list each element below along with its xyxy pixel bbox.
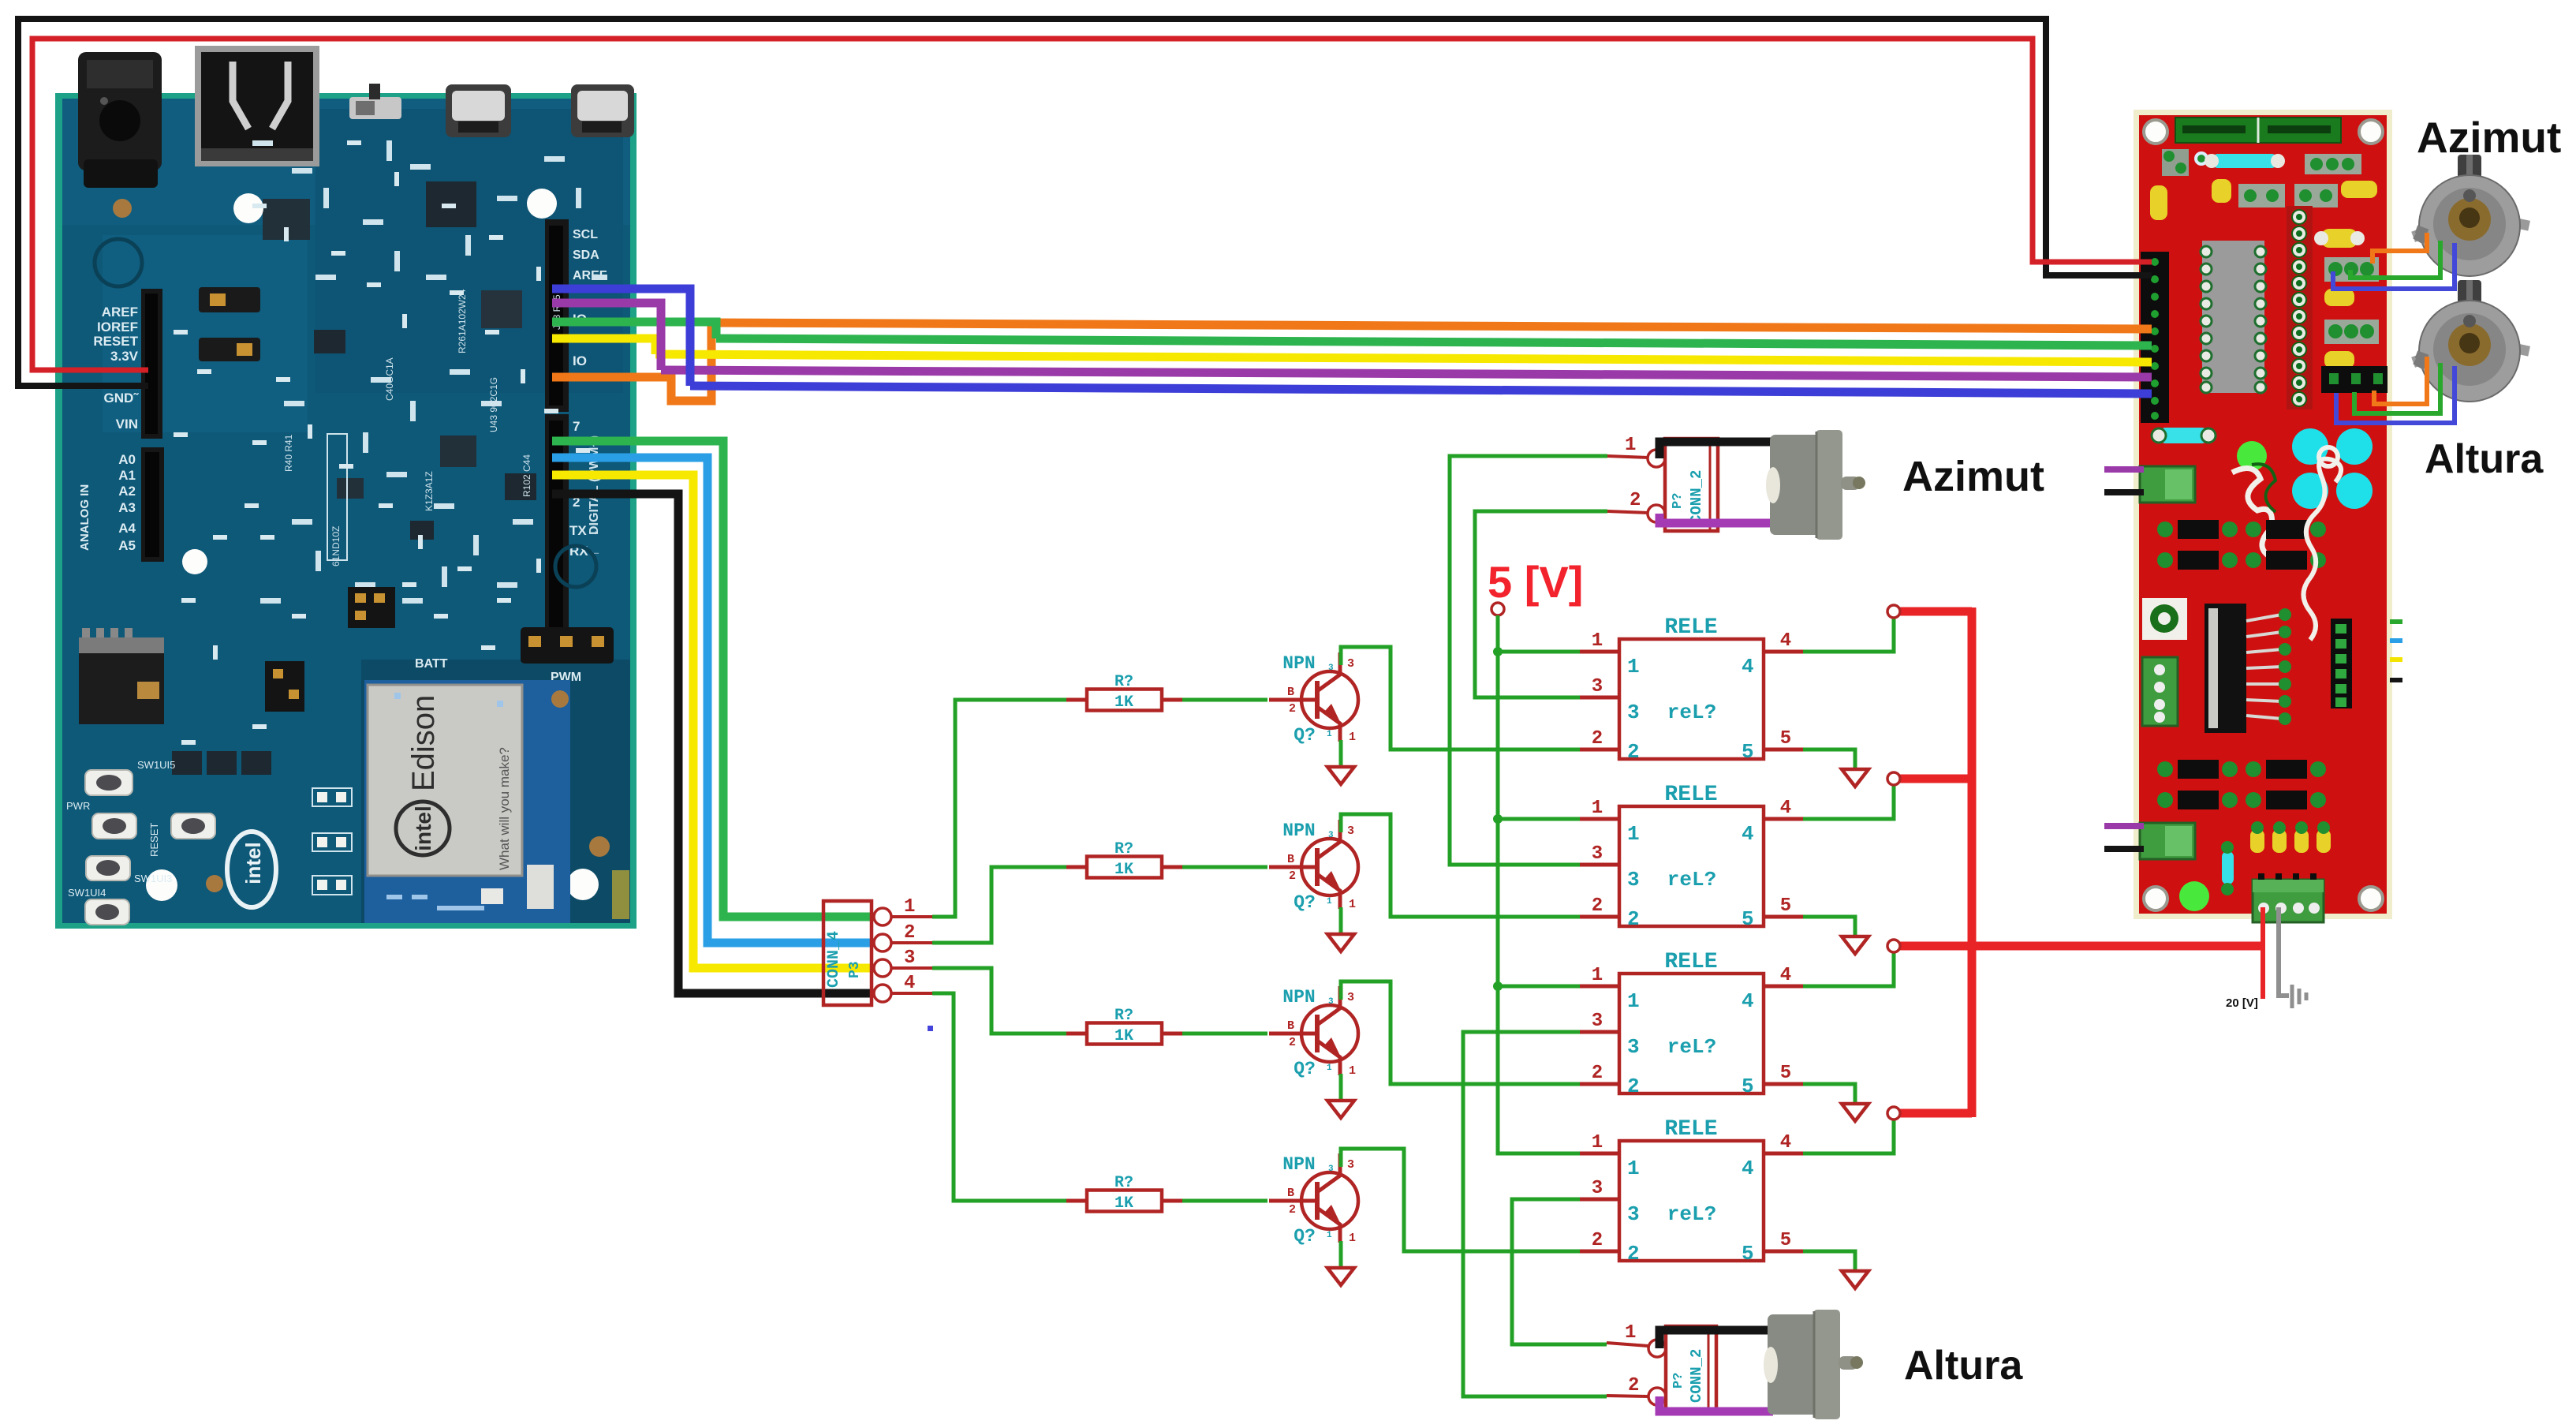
svg-text:SW1UI5: SW1UI5 (137, 759, 175, 771)
yellow wire to CONN_4 pin 3 (552, 475, 880, 968)
gray ground wire at PCB bottom terminal (2279, 907, 2289, 996)
button FW (86, 856, 172, 884)
mid 3-pad connector (2324, 320, 2379, 344)
diode row 2 (2157, 760, 2326, 809)
transistor Q2 (NPN) (1269, 820, 1358, 913)
yellow capacitor row (2250, 821, 2331, 853)
svg-text:P?: P? (1671, 493, 1686, 509)
pin 2 (874, 934, 891, 951)
svg-text:A2: A2 (118, 484, 136, 499)
net RELE1 pin3 up to Azimut pin2 (1475, 511, 1607, 697)
svg-text:RESET: RESET (148, 823, 160, 857)
black power wire (Edison GND to red PCB) (18, 19, 2152, 386)
svg-text:Azimut: Azimut (2417, 113, 2561, 162)
power IC with heatsink (2205, 604, 2246, 733)
net RELE3 pin4 to power bus (1803, 952, 1894, 986)
net CONN_4 pin4 to R4 (932, 993, 1066, 1201)
J15 pads (312, 788, 352, 895)
SOT components (172, 751, 202, 775)
small parts row (2162, 149, 2189, 176)
net RELE2 pin4 to power bus (1803, 785, 1894, 819)
transistor Q3 (NPN) (1269, 986, 1358, 1079)
silkscreen text noise (283, 289, 562, 566)
ground at RELE4 pin5 (1842, 1271, 1869, 1288)
net RELE1 pin5 to ground (1803, 750, 1855, 769)
ground under Q1 (1327, 767, 1354, 784)
green signal wire (552, 322, 716, 338)
svg-text:A3: A3 (118, 500, 136, 515)
net R3 to Q3 base (1182, 1032, 1267, 1036)
svg-text:4: 4 (904, 973, 915, 994)
net Q2 emitter to ground (1339, 907, 1343, 934)
purple signal wire (552, 303, 661, 370)
pot1 blue wire (2333, 243, 2455, 289)
svg-text:P?: P? (1671, 1373, 1686, 1389)
DC motor Azimut (1766, 430, 1865, 540)
pot2 black connector (2321, 366, 2387, 393)
left black input header (2141, 252, 2169, 423)
IC U43 (426, 181, 476, 227)
ground under Q4 (1327, 1268, 1354, 1285)
svg-text:SDA: SDA (573, 249, 599, 262)
svg-text:20 [V]: 20 [V] (2226, 996, 2258, 1010)
net Q2 collector to RELE2 pin2 (1341, 814, 1580, 917)
silkscreen specks (252, 140, 607, 651)
svg-text:R261A102W24: R261A102W24 (457, 289, 468, 353)
svg-text:BATT: BATT (415, 657, 448, 671)
junction circle bus/RELE2 (1887, 772, 1900, 785)
black motor wire (Azimut) (1659, 442, 1773, 458)
svg-text:GND˜: GND˜ (104, 391, 140, 406)
net RELE4 pin4 to power bus (1803, 1120, 1894, 1153)
power switch SW1 (349, 84, 401, 119)
pot2 blue wire (2336, 366, 2455, 423)
thick red motor supply bus (1894, 607, 2264, 1117)
button SW1UI5 (85, 759, 175, 795)
svg-text:7: 7 (573, 419, 580, 434)
ground at RELE3 pin5 (1842, 1104, 1869, 1121)
5V green bus (1498, 615, 1580, 1153)
ink speck (928, 1026, 933, 1031)
pot1 green wire (2350, 241, 2440, 278)
svg-text:Altura: Altura (2425, 436, 2544, 482)
jumper block J9 (199, 287, 260, 312)
net RELE4 pin5 to ground (1803, 1251, 1855, 1271)
intel swirl logo print (227, 832, 276, 907)
net Q4 emitter to ground (1339, 1241, 1343, 1268)
svg-text:Azimut: Azimut (1902, 453, 2044, 500)
blue signal wire (552, 289, 690, 386)
silkscreen frame (327, 434, 347, 560)
net R4 to Q4 base (1182, 1199, 1267, 1203)
orange signal wire (552, 323, 711, 401)
svg-text:What will you make?: What will you make? (497, 747, 512, 870)
svg-text:P3: P3 (847, 961, 863, 978)
fiducial print bottom-right (555, 546, 596, 587)
DC motor Altura (1764, 1310, 1863, 1419)
potentiometer Azimut (2411, 155, 2530, 276)
header J17 (348, 587, 395, 628)
pin 4 (874, 985, 891, 1002)
svg-text:PWR: PWR (66, 800, 90, 812)
Azimut CONN_2 pin 2 (1607, 490, 1665, 522)
purple motor wire (Azimut) (1659, 514, 1773, 523)
Altura CONN_2 pin 1 (1607, 1322, 1666, 1357)
green terminal (bottom-left) (2140, 823, 2195, 859)
net RELE3 pin5 to ground (1803, 1084, 1855, 1104)
svg-text:AREF: AREF (102, 305, 138, 320)
barrel jack J1 (78, 52, 162, 188)
net RELE4 pin3 down to Altura pin1 (1512, 1199, 1607, 1344)
green LED (2237, 441, 2267, 471)
net Q3 emitter to ground (1339, 1074, 1343, 1101)
relay RELE4 (1580, 1117, 1803, 1265)
pot2 orange wire (2374, 357, 2427, 404)
power header J21 (AREF..VIN) (93, 289, 162, 439)
svg-text:A0: A0 (118, 452, 136, 467)
svg-text:61ND10Z: 61ND10Z (330, 526, 342, 566)
button RM (68, 887, 129, 925)
black wire stub into bottom-left terminal (2104, 846, 2144, 852)
USB-A host connector (195, 46, 319, 166)
Azimut CONN_2 pin 1 (1607, 435, 1665, 467)
branch 5V to RELE2 pin1 (1498, 817, 1580, 821)
connector CONN_2 P2 (Azimut motor) (1665, 439, 1718, 531)
bottom green power terminal (2253, 880, 2324, 922)
IC U7 (314, 330, 345, 353)
wire stubs at PCB right edge (2390, 622, 2402, 680)
pin 1 (874, 908, 891, 925)
micro-USB J3 (571, 84, 634, 137)
ground at RELE1 pin5 (1842, 769, 1869, 787)
IC U14 (410, 521, 434, 540)
cyan cap (2222, 851, 2234, 884)
resistor R1 1K (1066, 673, 1182, 712)
relay RELE2 (1580, 783, 1803, 931)
net RELE1 pin4 to power bus (1803, 618, 1894, 652)
right-side small parts (2321, 229, 2358, 248)
PWM jumper block (521, 627, 614, 664)
olive tab (612, 870, 629, 919)
gear component (2142, 598, 2187, 640)
svg-text:Edison: Edison (406, 695, 441, 791)
ground under Q2 (1327, 934, 1354, 951)
resistor R3 1K (1066, 1007, 1182, 1045)
svg-text:IO: IO (573, 353, 587, 368)
svg-text:A5: A5 (118, 538, 136, 553)
green wire to CONN_4 pin 1 (552, 441, 880, 917)
Intel Edison module (364, 680, 570, 923)
purple motor wire (Altura) (1659, 1396, 1773, 1411)
net R2 to Q2 base (1182, 865, 1267, 869)
top green header (Seguidor Solar - 2016) (2175, 118, 2341, 143)
svg-text:1: 1 (1625, 1322, 1636, 1344)
svg-text:K1Z3A1Z: K1Z3A1Z (424, 471, 435, 511)
micro-USB J16 (446, 84, 511, 137)
svg-text:5 [V]: 5 [V] (1488, 557, 1583, 607)
connector CONN_2 P2 (Altura motor) (1666, 1326, 1716, 1409)
svg-text:SCL: SCL (573, 228, 598, 241)
ground under Q3 (1327, 1101, 1354, 1118)
Altura CONN_2 pin 2 (1607, 1375, 1666, 1405)
transistor Q4 (NPN) (1269, 1153, 1358, 1247)
mounting holes (233, 193, 263, 223)
svg-text:SW1UI3: SW1UI3 (134, 873, 172, 884)
junction circle bus/RELE3 (1887, 940, 1900, 952)
net RELE2 pin5 to ground (1803, 917, 1855, 936)
purple wire stub into bottom-left terminal (2104, 823, 2144, 829)
green terminal block (mid-left) (2140, 466, 2195, 503)
jumper block J11 (265, 661, 304, 712)
svg-text:R40 R41: R40 R41 (283, 434, 294, 472)
junction dots on 5V bus (1493, 647, 1503, 656)
pot2 green wire (2354, 363, 2440, 413)
green 4-pin terminal (2142, 657, 2178, 726)
microSD slot (79, 628, 164, 724)
digital header J19 (SCL..8) (545, 219, 607, 412)
net Q1 collector to RELE1 pin2 (1341, 647, 1580, 750)
yellow signal wire (552, 338, 655, 354)
IC U16 (337, 478, 364, 499)
button PWR (66, 800, 136, 839)
purple wire stub into mid-left terminal (2104, 466, 2144, 473)
red power wire (Edison 5V to red PCB) (32, 39, 2152, 370)
button RESET (148, 813, 215, 857)
net Q3 collector to RELE3 pin2 (1341, 981, 1580, 1084)
svg-text:1: 1 (1625, 435, 1636, 456)
mounting holes (2144, 120, 2167, 144)
digital header J20 (7..RX) (545, 414, 602, 634)
svg-text:1: 1 (904, 896, 915, 918)
black wire stub into mid-left terminal (2104, 489, 2144, 495)
svg-text:SW1UI4: SW1UI4 (68, 887, 106, 899)
net RELE3 pin3 down to Altura pin2 (1463, 1032, 1607, 1396)
svg-text:CONN_2: CONN_2 (1688, 470, 1705, 524)
svg-text:IOREF: IOREF (97, 320, 138, 335)
tall pad column (2287, 206, 2313, 409)
branch 5V to RELE3 pin1 (1498, 985, 1580, 989)
net Q1 emitter to ground (1339, 740, 1343, 767)
svg-text:Altura: Altura (1904, 1343, 2023, 1389)
relay RELE3 (1580, 950, 1803, 1098)
svg-text:VIN: VIN (116, 417, 138, 432)
pot1 3-pad connector (2324, 257, 2379, 282)
svg-text:R102 C44: R102 C44 (521, 454, 532, 497)
black 6-pad header (2331, 619, 2352, 708)
svg-text:C40GC1A: C40GC1A (384, 357, 395, 401)
cyan jumper (2159, 428, 2208, 443)
green LED bottom (2179, 881, 2209, 911)
resistor R2 1K (1066, 840, 1182, 879)
cyan pads (2292, 428, 2328, 465)
red supply wire at PCB bottom terminal (2261, 907, 2265, 999)
IC U10 (481, 290, 522, 328)
relay RELE1 (1580, 615, 1803, 764)
net CONN_4 pin2 to R2 (932, 867, 1066, 943)
svg-text:A1: A1 (118, 468, 136, 483)
svg-text:2: 2 (1630, 490, 1641, 511)
svg-text:A4: A4 (118, 521, 136, 536)
diode row 1 (2157, 520, 2326, 570)
net CONN_4 pin3 to R3 (932, 968, 1066, 1034)
svg-text:CONN_2: CONN_2 (1688, 1349, 1705, 1403)
svg-text:intel: intel (241, 842, 265, 884)
black motor wire (Altura) (1659, 1330, 1773, 1348)
blue wire to CONN_4 pin 2 (552, 458, 880, 943)
svg-text:3.3V: 3.3V (110, 349, 139, 364)
potentiometer Altura (2411, 280, 2530, 402)
IC U5 (263, 199, 310, 240)
svg-text:RESET: RESET (93, 334, 138, 349)
earth ground symbol (2292, 985, 2306, 1008)
IC U20 (440, 436, 476, 467)
svg-text:3: 3 (904, 948, 915, 969)
junction circle bus/RELE1 (1887, 605, 1900, 618)
analog header J22 (A0..A5) (78, 447, 164, 562)
svg-text:U43 902C1G: U43 902C1G (488, 377, 499, 432)
net CONN_4 pin1 to R1 (932, 700, 1066, 917)
red controller PCB (Seguidor Solar, right) (2134, 110, 2392, 922)
pin 3 (874, 959, 891, 977)
net R1 to Q1 base (1182, 698, 1267, 702)
transistor Q1 (NPN) (1269, 652, 1358, 746)
5V supply terminal circle (1491, 603, 1504, 615)
net RELE2 pin3 up to Azimut pin1 (1450, 456, 1607, 865)
resistor R4 1K (1066, 1174, 1182, 1213)
ground at RELE2 pin5 (1842, 936, 1869, 954)
branch 5V to RELE1 pin1 (1498, 650, 1580, 654)
Intel Edison Arduino board (photo, left) (55, 46, 637, 929)
svg-text:2: 2 (904, 922, 915, 944)
svg-text:2: 2 (1628, 1375, 1639, 1396)
svg-text:intel: intel (411, 806, 435, 851)
white trace squiggle (2232, 469, 2275, 559)
jumper block J8 (199, 338, 260, 361)
black wire to CONN_4 pin 4 (552, 494, 880, 993)
fiducial print top-left (95, 239, 142, 286)
IC U24 (505, 473, 536, 500)
IC (DIP, gray) (2202, 241, 2264, 393)
svg-text:CONN_4: CONN_4 (825, 931, 843, 988)
net Q4 collector to RELE4 pin2 (1341, 1149, 1580, 1251)
svg-text:ANALOG IN: ANALOG IN (78, 484, 91, 551)
connector CONN_4 P3 (823, 896, 932, 1005)
junction circle bus/RELE4 (1887, 1107, 1900, 1120)
white loop trace right (2303, 459, 2341, 640)
pot1 orange wire (2373, 233, 2427, 264)
